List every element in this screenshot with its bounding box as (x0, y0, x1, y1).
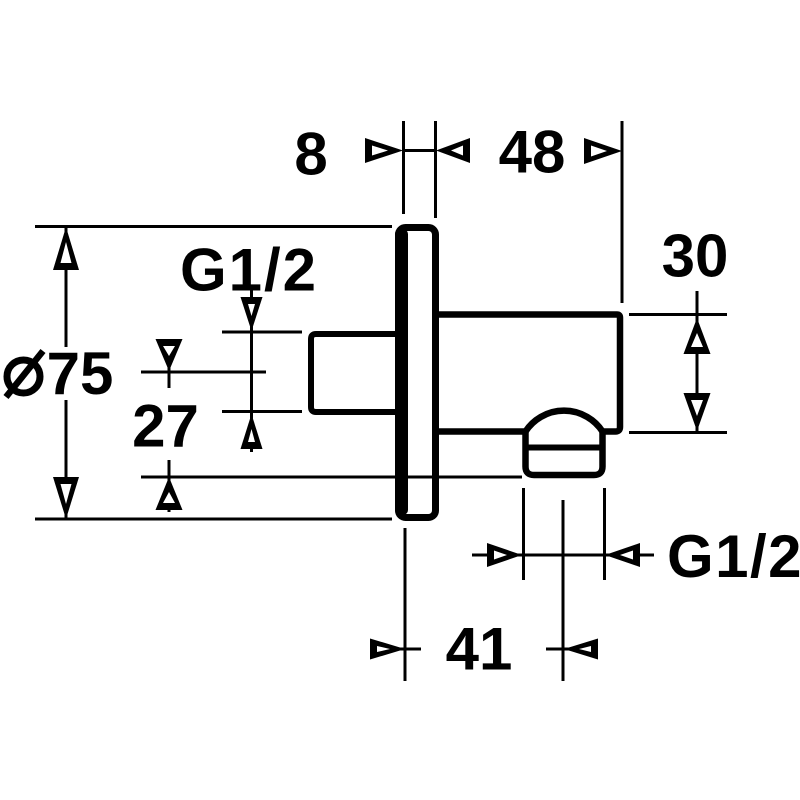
outlet right extension line (603, 488, 606, 580)
arrow dim8 right pointing left outer (436, 138, 470, 163)
arrow G1/2 top up outer (241, 414, 263, 449)
label dia75 diameter symbol circle (7, 360, 40, 393)
svg-text:75: 75 (47, 340, 114, 407)
arrow dim41 pointing left inner (579, 646, 591, 652)
G1/2 top extension line upper (222, 331, 302, 334)
arrow dim41 pointing left outer (564, 639, 598, 660)
arrow dim30 down outer (684, 393, 711, 431)
svg-text:41: 41 (446, 616, 513, 683)
dim 41 extension line (404, 528, 407, 681)
svg-text:G1/2: G1/2 (180, 237, 318, 304)
outlet center line (562, 500, 565, 681)
spigot (G1/2 inlet) outline (311, 334, 396, 412)
body bottom edge left segment (439, 428, 526, 435)
dim 30 bottom extension line (629, 431, 727, 434)
svg-text:8: 8 (294, 121, 327, 188)
dim 8 extension line right (434, 121, 437, 218)
dia75 dimension line lower segment (65, 400, 68, 518)
arrow dim8 right pointing left inner (451, 146, 463, 156)
dia75 dimension line upper segment (65, 228, 68, 347)
arrow G1/2 bottom pointing right outer (487, 543, 522, 567)
arrow G1/2 top down inner (248, 304, 255, 316)
arrow dim48 pointing right outer (584, 138, 622, 164)
outlet box outline (526, 430, 603, 475)
label dia75 diameter symbol slash (6, 351, 43, 397)
dim 8 extension line left (402, 121, 405, 214)
arrow dim8 left pointing right inner (372, 146, 388, 156)
arrow dim41 pointing right inner (377, 646, 390, 652)
arrow G1/2 bottom pointing left inner (620, 551, 633, 560)
arrow dim27 down outer (156, 339, 183, 371)
outlet mid line (523, 445, 605, 451)
arrow dim27 up outer (156, 477, 183, 510)
arrow dia75 up outer (53, 227, 79, 270)
flange left face double line (395, 229, 408, 515)
dim 27 dimension line upper stub (168, 340, 171, 388)
G1/2 bottom dimension line (472, 554, 654, 557)
arrow dim27 up inner (163, 492, 175, 503)
arrow dia75 up inner (61, 242, 72, 263)
arrow dia75 down outer (53, 477, 79, 519)
dim 41 tail left (398, 648, 421, 651)
arrow dim30 up outer (684, 318, 711, 354)
arrow G1/2 bottom pointing left outer (605, 543, 640, 567)
dim 8 line (404, 149, 436, 152)
arrow G1/2 top up inner (248, 429, 255, 442)
arrow dim48 pointing right inner (591, 146, 607, 157)
outlet left extension line (522, 488, 525, 580)
svg-text:30: 30 (662, 223, 729, 290)
G1/2 top dimension line (250, 288, 253, 452)
svg-text:27: 27 (132, 393, 199, 460)
dim 27 upper extension line (141, 371, 266, 374)
dim 27 lower extension line (141, 476, 522, 479)
G1/2 top extension line lower (222, 410, 302, 413)
dim 48 extension line (621, 121, 624, 303)
dim 30 dimension line (696, 291, 699, 431)
body outline top and right (439, 315, 620, 432)
arrow dim41 pointing right outer (370, 639, 405, 660)
arrow G1/2 bottom pointing right inner (494, 551, 507, 560)
dia75 top extension line (35, 225, 392, 228)
arrow dia75 down inner (61, 484, 72, 504)
arrow dim8 left pointing right outer (365, 138, 403, 163)
dim 30 top extension line (629, 313, 727, 316)
arrow dim30 down inner (691, 400, 703, 416)
arrow dim30 up inner (691, 333, 703, 347)
arrow dim27 down inner (163, 346, 175, 356)
dim 27 dimension line lower stub (168, 460, 171, 512)
dia75 bottom extension line (35, 518, 392, 521)
svg-text:48: 48 (499, 119, 566, 186)
svg-text:G1/2: G1/2 (667, 523, 800, 590)
outlet dome arc (526, 411, 603, 432)
dim 41 tail right (546, 648, 570, 651)
flange (wall rosette) outline (399, 228, 436, 518)
arrow G1/2 top down outer (241, 297, 263, 331)
